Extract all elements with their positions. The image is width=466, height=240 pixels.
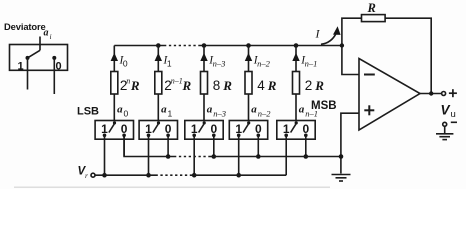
current arrow In–1: [292, 53, 299, 61]
switch pivot node an–1: [295, 121, 298, 124]
svg-text:n–2: n–2: [258, 109, 272, 119]
contact node 1 of a1: [147, 134, 151, 138]
resistor 4R: [245, 72, 252, 95]
junction dot on Vr bus at x=148.5: [146, 173, 151, 178]
wire contact 0 of an–2 to ground bus: [257, 135, 259, 156]
negative terminal circle: [443, 122, 447, 126]
label - (negative terminal): [451, 121, 457, 123]
svg-text:2: 2: [305, 78, 313, 93]
svg-text:R: R: [367, 1, 376, 15]
svg-text:i: i: [50, 32, 52, 41]
junction dot on ground bus at x=305.8: [304, 154, 309, 159]
label 0 in box an–3: [210, 122, 217, 136]
top summing bus wire: [114, 45, 164, 47]
minus sign (inverting input): [364, 74, 375, 76]
wire branch 4 vertical: [248, 46, 250, 121]
switch pivot node a1: [157, 121, 160, 124]
summing node dot: [340, 43, 344, 47]
switch arm an–2: [243, 123, 249, 133]
feedback wire up from summing node: [342, 18, 362, 45]
svg-text:R: R: [222, 78, 232, 93]
current arrow I0: [111, 53, 118, 61]
label I1: [163, 55, 172, 69]
wire contact 1 of a0 to Vr bus: [104, 135, 106, 175]
wire branch 2 vertical: [157, 46, 159, 121]
label Vu: [441, 103, 456, 121]
label an–2: [251, 104, 271, 119]
node on bus at branch In-3: [202, 43, 207, 48]
switch pivot node a0: [113, 121, 116, 124]
wire contact 0 of a1 to ground bus: [167, 135, 169, 156]
resistor 2R: [293, 72, 300, 95]
output terminal + circle: [442, 92, 446, 96]
wire branch 5 vertical: [295, 46, 297, 121]
junction dot on Vr bus at x=104.5: [102, 173, 107, 178]
wire branch 1 vertical: [113, 46, 115, 121]
switch box a0: [95, 121, 133, 140]
node on bus at branch In-1: [294, 43, 299, 48]
svg-text:a: a: [251, 104, 257, 116]
label 0 in box an–2: [255, 122, 262, 136]
label 1 in box a1: [145, 122, 152, 136]
svg-text:0: 0: [123, 59, 128, 69]
main ground symbol: [332, 174, 351, 176]
contact node 0 of an–2: [257, 134, 261, 138]
output node dot (feedback junction): [429, 91, 433, 95]
resistor 2nR: [111, 72, 118, 95]
value label 2n–1R: [164, 77, 191, 94]
svg-text:a: a: [207, 104, 213, 116]
svg-text:n–2: n–2: [257, 59, 271, 69]
Vr terminal circle: [91, 173, 95, 177]
wire branch 3 vertical: [203, 46, 205, 121]
Vr bus wire: [95, 174, 156, 176]
current arrow In–2: [245, 53, 252, 61]
wire contact 1 of a1 to Vr bus: [148, 135, 150, 175]
feedback wire right and down to output: [385, 18, 431, 93]
value label 8R: [213, 78, 232, 93]
wire contact 0 of an–1 to ground bus: [305, 135, 307, 156]
label In–3: [208, 55, 225, 69]
svg-text:n–3: n–3: [213, 59, 226, 69]
contact node 1 of an–1: [284, 134, 288, 138]
switch box an–3: [185, 121, 223, 140]
label LSB: [77, 106, 99, 118]
value label 2nR: [120, 77, 140, 94]
svg-text:n: n: [126, 77, 130, 86]
wire summing node to inverting input: [342, 46, 359, 75]
label 0 in box a0: [121, 122, 128, 136]
svg-text:0: 0: [124, 109, 129, 119]
wire non-inverting input to ground bus: [341, 113, 359, 173]
label a_i: [44, 27, 52, 41]
svg-text:r: r: [85, 171, 88, 180]
small ground symbol: [436, 133, 453, 135]
junction dot on ground bus at x=213.8: [212, 154, 217, 159]
svg-text:a: a: [161, 104, 167, 116]
wire negative terminal to small ground: [444, 126, 446, 133]
node on bus at branch In-2: [246, 43, 251, 48]
op-amp output wire: [420, 93, 442, 95]
switch arm an–3: [199, 123, 205, 133]
label I0: [119, 55, 128, 69]
switch arm a1: [153, 123, 159, 133]
contact node 0 of a0: [122, 134, 126, 138]
feedback resistor R: [362, 15, 386, 22]
switch pivot node an–2: [247, 121, 250, 124]
svg-text:a: a: [299, 104, 305, 116]
Deviatore callout label: [4, 21, 46, 32]
scan smudge bottom: [14, 186, 330, 188]
wire stub from detail contact 0: [53, 58, 55, 94]
svg-text:Deviatore: Deviatore: [4, 21, 46, 32]
Vr terminal label: [78, 166, 89, 181]
label 0 in box a1: [165, 122, 172, 136]
junction dot on ground bus at x=168.10000000000002: [166, 154, 171, 159]
contact node 0 of an–3: [212, 134, 216, 138]
label + (output): [449, 92, 457, 94]
contact node 0 of an–1: [304, 134, 308, 138]
wire contact 0 of an–3 to ground bus: [213, 135, 215, 156]
label 1 in box an–3: [191, 122, 198, 136]
label In–2: [253, 55, 271, 69]
wire contact 1 of an–3 to Vr bus: [193, 135, 195, 175]
resistor 2n–1R: [155, 72, 162, 95]
svg-text:u: u: [451, 109, 456, 120]
label 0 in box an–1: [302, 122, 309, 136]
label In–1: [300, 55, 317, 69]
junction dot on Vr bus at x=238.7: [236, 173, 241, 178]
junction dot ground bus / + input: [339, 154, 344, 159]
svg-text:n–1: n–1: [171, 77, 183, 86]
op-amp U1 triangle: [359, 59, 420, 131]
svg-text:8: 8: [213, 78, 221, 93]
label I (total current): [315, 27, 321, 41]
label 1 (detail): [18, 61, 24, 73]
switch box an–1: [277, 121, 315, 140]
contact node 1 of an–2: [237, 134, 241, 138]
svg-text:R: R: [267, 78, 277, 93]
wire a_i control into detail switch: [39, 37, 41, 51]
svg-text:MSB: MSB: [311, 100, 337, 112]
label an–3: [207, 104, 226, 119]
svg-text:1: 1: [18, 61, 24, 73]
wire contact 1 of an–1 down to Vr bus end corner: [285, 135, 287, 175]
label R: [367, 1, 376, 15]
svg-text:n–3: n–3: [213, 109, 226, 119]
wire contact 0 of a0 to ground bus: [123, 135, 125, 156]
switch arm an–1: [291, 123, 297, 133]
value label 4R: [257, 78, 276, 93]
contact node 1 of an–3: [192, 134, 196, 138]
svg-text:a: a: [44, 27, 49, 38]
svg-text:1: 1: [168, 109, 173, 119]
svg-text:4: 4: [257, 78, 265, 93]
label 1 in box an–1: [283, 122, 290, 136]
ground bus wire (0 contacts): [124, 135, 174, 156]
contact node 0 of a1: [166, 134, 170, 138]
current arrow In–3: [200, 53, 207, 61]
switch arm (detail): [28, 50, 41, 58]
label 1 in box a0: [101, 122, 108, 136]
label 1 in box an–2: [235, 122, 242, 136]
contact dot 0 (detail): [52, 56, 56, 60]
svg-text:R: R: [314, 78, 324, 93]
switch pivot node an–3: [203, 121, 206, 124]
current arrow I1: [155, 53, 162, 61]
svg-text:0: 0: [56, 61, 62, 73]
svg-text:1: 1: [167, 59, 172, 69]
value label 2R: [305, 78, 324, 93]
svg-text:a: a: [117, 104, 123, 116]
detail switch box (Deviatore): [10, 45, 68, 71]
switch box an–2: [229, 121, 267, 140]
svg-text:V: V: [441, 103, 451, 118]
switch arm a0: [109, 123, 115, 133]
contact node 1 of a0: [103, 134, 107, 138]
junction dot on ground bus at x=258.3: [256, 154, 261, 159]
label an–1: [299, 104, 318, 119]
node on bus at branch I1: [156, 43, 161, 48]
label a1: [161, 104, 172, 119]
svg-text:n–1: n–1: [305, 59, 318, 69]
label a0: [117, 104, 128, 119]
label 0 (detail): [56, 61, 62, 73]
svg-text:R: R: [182, 78, 192, 93]
wire contact 1 of an–2 to Vr bus: [238, 135, 240, 175]
svg-text:R: R: [130, 78, 140, 93]
label MSB: [311, 100, 337, 112]
wire stub from detail contact 1: [27, 58, 29, 90]
curved current arrow I: [321, 33, 336, 44]
svg-text:LSB: LSB: [77, 106, 99, 118]
resistor 8R: [201, 72, 208, 95]
contact dot 1 (detail): [26, 56, 30, 60]
junction dot on Vr bus at x=194.2: [192, 173, 197, 178]
plus sign (non-inverting input): [364, 109, 374, 111]
switch box a1: [139, 121, 177, 140]
